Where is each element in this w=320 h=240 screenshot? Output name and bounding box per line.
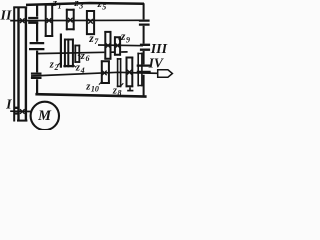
svg-text:IV: IV [148,55,164,70]
svg-text:4: 4 [80,66,85,75]
svg-text:3: 3 [78,1,83,10]
svg-text:II: II [0,9,12,24]
svg-text:10: 10 [91,85,99,94]
svg-text:I: I [5,98,12,113]
svg-text:6: 6 [86,54,90,63]
svg-text:1: 1 [58,1,62,10]
svg-text:8: 8 [118,89,122,98]
svg-text:2: 2 [54,63,59,72]
svg-text:z: z [120,31,126,43]
svg-text:M: M [37,108,52,124]
svg-text:9: 9 [126,35,130,44]
svg-text:5: 5 [102,2,106,11]
